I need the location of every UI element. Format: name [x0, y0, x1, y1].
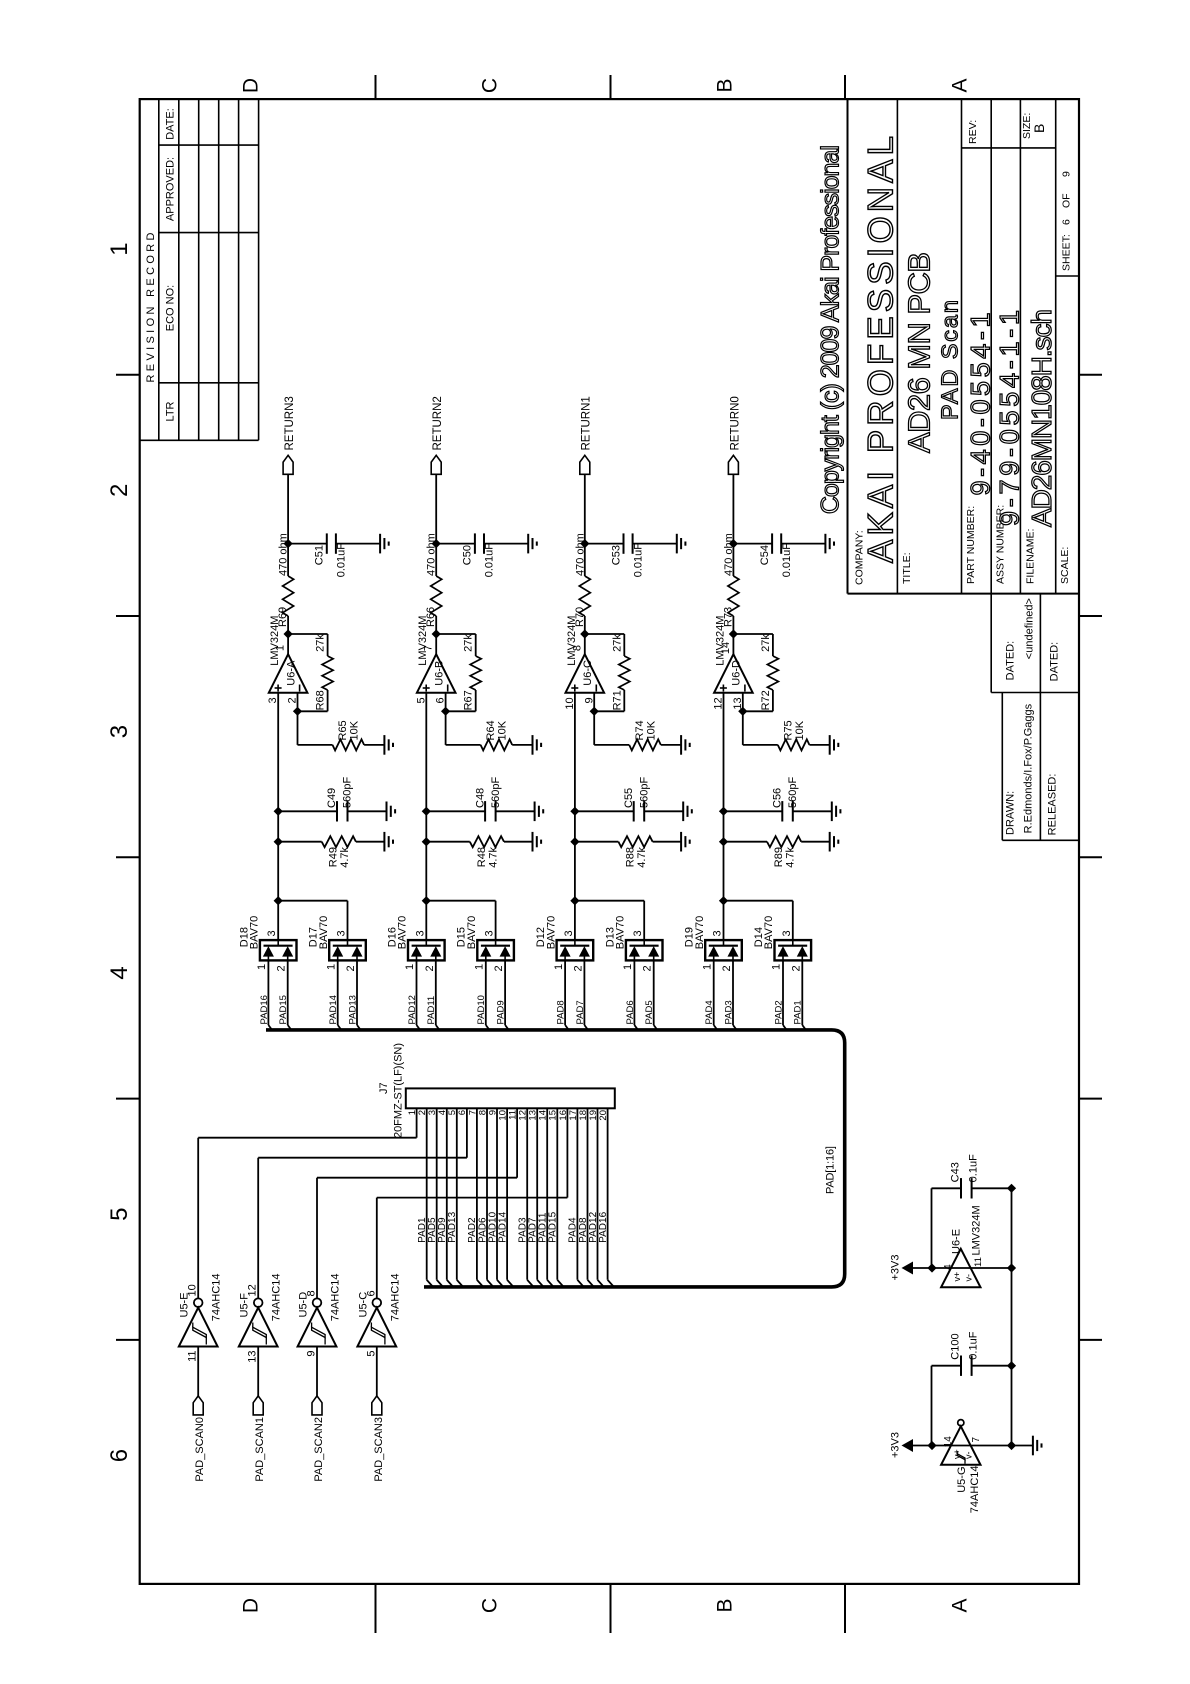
svg-text:U6-D: U6-D	[731, 660, 743, 686]
svg-text:U6-C: U6-C	[582, 660, 594, 686]
svg-text:+3V3: +3V3	[890, 1432, 902, 1458]
svg-text:560pF: 560pF	[638, 777, 650, 808]
svg-text:2: 2	[642, 965, 654, 971]
svg-text:PAD11: PAD11	[426, 996, 437, 1025]
svg-text:PAD12: PAD12	[407, 995, 418, 1024]
svg-text:R75: R75	[782, 720, 794, 740]
svg-text:4.7k: 4.7k	[636, 847, 648, 868]
svg-text:3: 3	[266, 930, 278, 936]
svg-text:2: 2	[276, 965, 288, 971]
svg-text:BAV70: BAV70	[466, 916, 478, 949]
svg-text:470 ohm: 470 ohm	[723, 533, 735, 576]
svg-text:C49: C49	[326, 788, 338, 808]
svg-text:10K: 10K	[497, 720, 509, 740]
svg-text:4: 4	[106, 966, 133, 979]
svg-text:SHEET:: SHEET:	[1061, 234, 1073, 271]
svg-text:C55: C55	[623, 788, 635, 808]
svg-text:FILENAME:: FILENAME:	[1025, 529, 1037, 584]
svg-text:PAD6: PAD6	[625, 1000, 636, 1024]
svg-text:1: 1	[553, 964, 565, 970]
svg-text:ECO NO:: ECO NO:	[165, 285, 177, 331]
svg-text:PAD_SCAN3: PAD_SCAN3	[373, 1417, 385, 1482]
svg-text:PAD10: PAD10	[476, 995, 487, 1024]
svg-text:10K: 10K	[794, 720, 806, 740]
svg-text:3: 3	[414, 930, 426, 936]
svg-text:C100: C100	[950, 1333, 962, 1359]
svg-text:6: 6	[365, 1290, 377, 1296]
svg-text:3: 3	[336, 930, 348, 936]
svg-text:APPROVED:: APPROVED:	[165, 157, 177, 221]
svg-text:A: A	[949, 78, 972, 92]
svg-text:8: 8	[571, 645, 583, 651]
svg-text:74AHC14: 74AHC14	[330, 1273, 342, 1321]
svg-text:1: 1	[275, 645, 287, 651]
svg-text:27k: 27k	[315, 634, 327, 652]
svg-text:C: C	[479, 78, 502, 93]
svg-text:LMV324M: LMV324M	[971, 1205, 983, 1255]
svg-text:560pF: 560pF	[342, 777, 354, 808]
svg-text:D: D	[240, 1598, 263, 1613]
svg-text:U6-E: U6-E	[951, 1229, 963, 1254]
svg-text:PAD Scan: PAD Scan	[936, 300, 962, 420]
svg-text:PAD7: PAD7	[575, 1000, 586, 1024]
svg-text:B: B	[1031, 124, 1047, 133]
svg-text:PAD8: PAD8	[556, 1000, 567, 1024]
svg-text:4: 4	[943, 1264, 954, 1270]
svg-text:R48: R48	[476, 847, 488, 867]
svg-text:0.1uF: 0.1uF	[968, 1331, 980, 1359]
svg-text:AD26MN108H.sch: AD26MN108H.sch	[1026, 309, 1057, 527]
svg-text:PAD16: PAD16	[259, 995, 270, 1024]
svg-text:R68: R68	[315, 690, 327, 710]
svg-text:11: 11	[973, 1257, 984, 1267]
svg-text:1: 1	[256, 964, 268, 970]
svg-text:PAD9: PAD9	[496, 1000, 507, 1024]
svg-text:U5-G: U5-G	[956, 1467, 968, 1493]
svg-text:C54: C54	[759, 545, 771, 565]
svg-text:BAV70: BAV70	[318, 916, 330, 949]
svg-text:74AHC14: 74AHC14	[969, 1466, 981, 1514]
svg-text:PAD2: PAD2	[773, 1000, 784, 1024]
svg-text:560pF: 560pF	[490, 777, 502, 808]
svg-text:27k: 27k	[611, 634, 623, 652]
svg-text:RETURN3: RETURN3	[284, 396, 296, 450]
svg-text:4.7k: 4.7k	[487, 847, 499, 868]
svg-text:A: A	[949, 1598, 972, 1612]
svg-text:20FMZ-ST(LF)(SN): 20FMZ-ST(LF)(SN)	[393, 1043, 405, 1138]
svg-text:2: 2	[493, 965, 505, 971]
svg-text:LMV324M: LMV324M	[269, 616, 281, 666]
svg-text:0.01uF: 0.01uF	[336, 543, 348, 578]
svg-text:DRAWN:: DRAWN:	[1005, 791, 1017, 835]
svg-text:+3V3: +3V3	[890, 1255, 902, 1281]
svg-text:OF: OF	[1061, 193, 1073, 208]
svg-text:DATE:: DATE:	[165, 108, 177, 140]
svg-text:PAD_SCAN2: PAD_SCAN2	[313, 1417, 325, 1482]
svg-text:C56: C56	[772, 788, 784, 808]
svg-text:0.01uF: 0.01uF	[632, 543, 644, 578]
svg-text:PAD_SCAN0: PAD_SCAN0	[194, 1417, 206, 1482]
svg-text:R.Edmonds/I.Fox/P.Gaggs: R.Edmonds/I.Fox/P.Gaggs	[1023, 703, 1035, 833]
svg-text:470 ohm: 470 ohm	[426, 533, 438, 576]
svg-text:11: 11	[187, 1351, 199, 1362]
svg-text:8: 8	[306, 1290, 318, 1296]
svg-text:R49: R49	[328, 847, 340, 867]
svg-text:RETURN2: RETURN2	[432, 396, 444, 450]
svg-text:PAD14: PAD14	[497, 1211, 508, 1242]
svg-text:6: 6	[106, 1449, 133, 1462]
svg-text:PAD15: PAD15	[548, 1211, 559, 1242]
svg-text:BAV70: BAV70	[397, 916, 409, 949]
svg-text:R88: R88	[624, 847, 636, 867]
svg-text:3: 3	[781, 930, 793, 936]
svg-text:PAD15: PAD15	[278, 995, 289, 1024]
svg-text:9-40-0554-1: 9-40-0554-1	[965, 313, 995, 496]
svg-text:27k: 27k	[463, 634, 475, 652]
svg-text:Copyright (c) 2009 Akai Profes: Copyright (c) 2009 Akai Professional	[816, 145, 844, 514]
svg-text:2: 2	[572, 965, 584, 971]
svg-text:3: 3	[106, 725, 133, 738]
svg-text:B: B	[714, 78, 737, 92]
svg-text:74AHC14: 74AHC14	[389, 1273, 401, 1321]
svg-text:PAD4: PAD4	[704, 1000, 715, 1024]
svg-text:2: 2	[721, 965, 733, 971]
svg-text:DATED:: DATED:	[1049, 642, 1061, 682]
svg-text:PAD_SCAN1: PAD_SCAN1	[254, 1417, 266, 1482]
svg-text:B: B	[714, 1598, 737, 1612]
svg-text:BAV70: BAV70	[545, 916, 557, 949]
svg-text:14: 14	[943, 1436, 954, 1448]
svg-text:C48: C48	[474, 788, 486, 808]
svg-text:J7: J7	[378, 1082, 390, 1094]
svg-text:1: 1	[325, 964, 337, 970]
svg-text:AD26 MN PCB: AD26 MN PCB	[902, 252, 937, 453]
svg-text:PART NUMBER:: PART NUMBER:	[965, 506, 977, 584]
svg-text:3: 3	[632, 930, 644, 936]
svg-text:BAV70: BAV70	[694, 916, 706, 949]
svg-text:RETURN0: RETURN0	[729, 396, 741, 450]
svg-text:PAD13: PAD13	[347, 995, 358, 1024]
svg-text:R67: R67	[463, 690, 475, 710]
svg-text:PAD5: PAD5	[644, 1000, 655, 1024]
svg-text:RELEASED:: RELEASED:	[1047, 774, 1059, 836]
svg-text:BAV70: BAV70	[615, 916, 627, 949]
svg-text:C: C	[479, 1598, 502, 1613]
svg-text:9: 9	[306, 1351, 318, 1357]
svg-text:10K: 10K	[349, 720, 361, 740]
svg-text:14: 14	[720, 642, 732, 654]
svg-text:LMV324M: LMV324M	[566, 616, 578, 666]
svg-text:LMV324M: LMV324M	[417, 616, 429, 666]
svg-text:v+: v+	[952, 1272, 962, 1282]
svg-text:R65: R65	[337, 720, 349, 740]
svg-text:10: 10	[187, 1284, 199, 1296]
svg-text:9: 9	[1061, 171, 1073, 177]
svg-text:1: 1	[771, 964, 783, 970]
svg-text:9-79-0554-1-1: 9-79-0554-1-1	[995, 310, 1025, 526]
svg-text:DATED:: DATED:	[1005, 641, 1017, 681]
svg-text:PAD[1:16]: PAD[1:16]	[825, 1146, 837, 1194]
svg-text:LMV324M: LMV324M	[714, 616, 726, 666]
svg-text:SCALE:: SCALE:	[1059, 547, 1071, 584]
svg-text:2: 2	[345, 965, 357, 971]
svg-text:BAV70: BAV70	[763, 916, 775, 949]
svg-text:2: 2	[106, 484, 133, 497]
svg-text:470 ohm: 470 ohm	[278, 533, 290, 576]
svg-text:C50: C50	[462, 545, 474, 565]
svg-text:3: 3	[712, 930, 724, 936]
svg-text:PAD3: PAD3	[723, 1000, 734, 1024]
svg-text:0.1uF: 0.1uF	[968, 1154, 980, 1182]
svg-text:v-: v-	[964, 1274, 974, 1282]
svg-text:REV:: REV:	[967, 120, 979, 144]
svg-text:4.7k: 4.7k	[339, 847, 351, 868]
svg-text:C53: C53	[610, 545, 622, 565]
svg-text:5: 5	[365, 1351, 377, 1357]
svg-text:PAD14: PAD14	[328, 995, 339, 1024]
svg-text:U6-B: U6-B	[434, 661, 446, 686]
svg-text:3: 3	[563, 930, 575, 936]
svg-text:13: 13	[247, 1351, 259, 1363]
svg-text:TITLE:: TITLE:	[901, 552, 913, 584]
svg-text:0.01uF: 0.01uF	[484, 543, 496, 578]
svg-text:6: 6	[1061, 219, 1073, 225]
svg-text:74AHC14: 74AHC14	[211, 1273, 223, 1321]
svg-text:<undefined>: <undefined>	[1024, 598, 1036, 659]
svg-text:R74: R74	[634, 720, 646, 740]
svg-text:1: 1	[701, 964, 713, 970]
svg-text:1: 1	[474, 964, 486, 970]
svg-text:4.7k: 4.7k	[785, 847, 797, 868]
svg-text:BAV70: BAV70	[249, 916, 261, 949]
svg-text:C43: C43	[950, 1162, 962, 1182]
svg-text:R71: R71	[611, 690, 623, 710]
svg-text:U6-A: U6-A	[285, 660, 297, 686]
svg-text:5: 5	[106, 1208, 133, 1221]
svg-text:7: 7	[971, 1437, 982, 1443]
svg-text:PAD1: PAD1	[793, 1000, 804, 1024]
svg-text:27k: 27k	[760, 634, 772, 652]
svg-text:0.01uF: 0.01uF	[781, 543, 793, 578]
svg-text:1: 1	[404, 964, 416, 970]
svg-text:R64: R64	[485, 720, 497, 740]
svg-text:10K: 10K	[645, 720, 657, 740]
svg-text:AKAI PROFESSIONAL: AKAI PROFESSIONAL	[862, 136, 901, 563]
svg-text:12: 12	[247, 1284, 259, 1296]
svg-text:470 ohm: 470 ohm	[574, 533, 586, 576]
svg-text:3: 3	[484, 930, 496, 936]
svg-text:1: 1	[106, 242, 133, 255]
svg-text:RETURN1: RETURN1	[581, 396, 593, 450]
svg-text:LTR: LTR	[165, 401, 177, 421]
svg-text:C51: C51	[314, 545, 326, 565]
svg-text:1: 1	[622, 964, 634, 970]
svg-text:2: 2	[424, 965, 436, 971]
svg-text:2: 2	[790, 965, 802, 971]
svg-text:74AHC14: 74AHC14	[271, 1273, 283, 1321]
svg-text:R72: R72	[760, 690, 772, 710]
svg-text:R89: R89	[773, 847, 785, 867]
svg-text:PAD16: PAD16	[598, 1211, 609, 1242]
svg-text:D: D	[240, 78, 263, 93]
svg-text:7: 7	[423, 645, 435, 651]
svg-text:PAD13: PAD13	[447, 1211, 458, 1242]
svg-text:560pF: 560pF	[787, 777, 799, 808]
